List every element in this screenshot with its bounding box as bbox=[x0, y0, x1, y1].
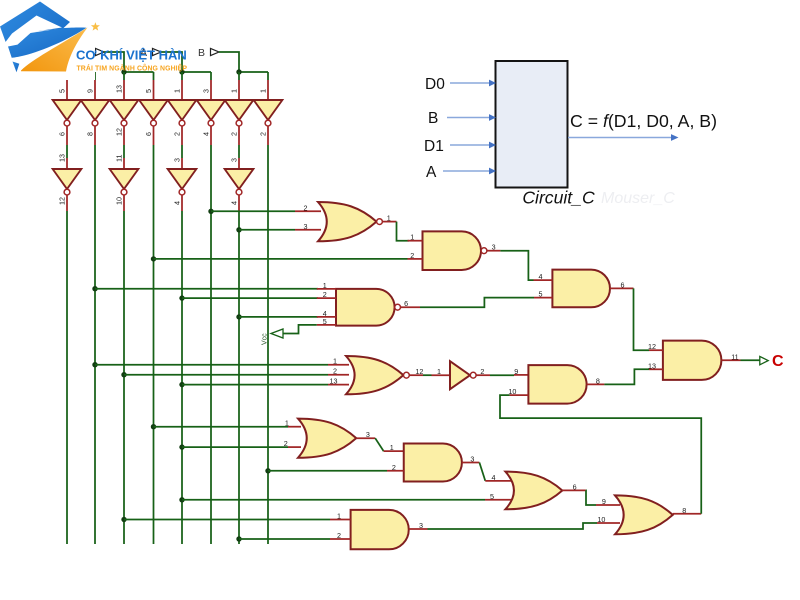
svg-text:4: 4 bbox=[230, 201, 239, 205]
svg-text:10: 10 bbox=[115, 197, 124, 205]
svg-text:2: 2 bbox=[392, 463, 396, 472]
svg-text:5: 5 bbox=[539, 290, 543, 299]
svg-text:A: A bbox=[426, 164, 437, 181]
svg-text:6: 6 bbox=[573, 482, 577, 491]
svg-text:5: 5 bbox=[144, 89, 153, 93]
svg-text:13: 13 bbox=[330, 377, 338, 386]
svg-text:1: 1 bbox=[387, 213, 391, 222]
svg-text:8: 8 bbox=[682, 506, 686, 515]
svg-text:12: 12 bbox=[415, 367, 423, 376]
svg-text:2: 2 bbox=[304, 203, 308, 212]
svg-text:B: B bbox=[428, 110, 438, 127]
svg-text:13: 13 bbox=[648, 361, 656, 370]
svg-text:C = f(D1, D0, A, B): C = f(D1, D0, A, B) bbox=[570, 111, 717, 131]
svg-text:1: 1 bbox=[285, 419, 289, 428]
svg-text:9: 9 bbox=[514, 367, 518, 376]
svg-text:1: 1 bbox=[333, 357, 337, 366]
svg-text:4: 4 bbox=[173, 201, 182, 205]
svg-text:3: 3 bbox=[202, 89, 211, 93]
svg-text:12: 12 bbox=[58, 197, 67, 205]
svg-text:2: 2 bbox=[480, 367, 484, 376]
svg-text:2: 2 bbox=[410, 251, 414, 260]
svg-text:1: 1 bbox=[259, 89, 268, 93]
svg-text:6: 6 bbox=[404, 299, 408, 308]
svg-text:1: 1 bbox=[437, 367, 441, 376]
svg-text:13: 13 bbox=[115, 85, 124, 93]
svg-text:2: 2 bbox=[284, 439, 288, 448]
svg-text:9: 9 bbox=[86, 89, 95, 93]
svg-text:2: 2 bbox=[230, 132, 239, 136]
svg-text:6: 6 bbox=[144, 132, 153, 136]
svg-text:1: 1 bbox=[410, 233, 414, 242]
svg-text:CƠ KHÍ VIỆT HÀN: CƠ KHÍ VIỆT HÀN bbox=[76, 48, 187, 63]
svg-text:5: 5 bbox=[58, 89, 67, 93]
svg-text:2: 2 bbox=[333, 367, 337, 376]
svg-text:3: 3 bbox=[366, 430, 370, 439]
svg-text:5: 5 bbox=[490, 492, 494, 501]
svg-text:10: 10 bbox=[597, 515, 605, 524]
svg-text:4: 4 bbox=[202, 132, 211, 136]
svg-text:2: 2 bbox=[337, 531, 341, 540]
svg-text:C: C bbox=[772, 353, 784, 370]
svg-text:4: 4 bbox=[539, 272, 543, 281]
svg-text:3: 3 bbox=[304, 222, 308, 231]
svg-text:6: 6 bbox=[58, 132, 67, 136]
svg-text:2: 2 bbox=[323, 290, 327, 299]
svg-text:1: 1 bbox=[323, 281, 327, 290]
svg-text:9: 9 bbox=[602, 497, 606, 506]
svg-text:11: 11 bbox=[115, 155, 124, 162]
svg-text:TRÁI TIM NGÀNH CÔNG NGHIỆP: TRÁI TIM NGÀNH CÔNG NGHIỆP bbox=[77, 64, 188, 73]
svg-text:3: 3 bbox=[470, 455, 474, 464]
svg-text:12: 12 bbox=[648, 342, 656, 351]
svg-text:B: B bbox=[198, 47, 205, 59]
svg-text:2: 2 bbox=[173, 132, 182, 136]
svg-text:3: 3 bbox=[492, 243, 496, 252]
svg-text:Mouser_C: Mouser_C bbox=[601, 190, 675, 207]
svg-text:8: 8 bbox=[86, 132, 95, 136]
svg-text:D0: D0 bbox=[425, 76, 445, 93]
svg-text:8: 8 bbox=[596, 376, 600, 385]
svg-text:3: 3 bbox=[173, 158, 182, 162]
svg-text:1: 1 bbox=[230, 89, 239, 93]
svg-text:13: 13 bbox=[58, 154, 67, 162]
svg-text:11: 11 bbox=[731, 352, 738, 361]
svg-text:12: 12 bbox=[115, 128, 124, 136]
svg-text:D1: D1 bbox=[424, 138, 444, 155]
svg-text:Vcc: Vcc bbox=[262, 333, 269, 345]
svg-text:1: 1 bbox=[337, 512, 341, 521]
svg-text:1: 1 bbox=[173, 89, 182, 93]
svg-text:Circuit_C: Circuit_C bbox=[522, 188, 595, 208]
svg-text:6: 6 bbox=[621, 280, 625, 289]
svg-text:3: 3 bbox=[419, 521, 423, 530]
svg-text:3: 3 bbox=[230, 158, 239, 162]
svg-text:5: 5 bbox=[323, 317, 327, 326]
svg-text:4: 4 bbox=[492, 473, 496, 482]
svg-text:1: 1 bbox=[390, 443, 394, 452]
svg-text:2: 2 bbox=[259, 132, 268, 136]
